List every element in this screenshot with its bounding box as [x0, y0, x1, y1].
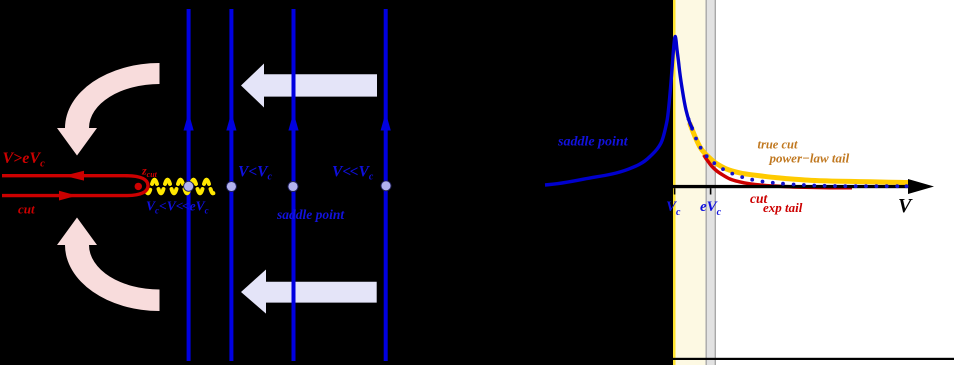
field line 3 arrowhead	[288, 113, 298, 131]
gold vertical line at V_c	[673, 0, 676, 365]
svg-text:cut: cut	[18, 202, 35, 217]
svg-text:true cut: true cut	[758, 138, 798, 152]
saddle point dot on line 4	[381, 181, 391, 191]
hairpin top arrow (leftward)	[64, 171, 84, 181]
right panel bottom border	[673, 358, 954, 360]
pink curved arrow top	[57, 63, 160, 156]
gray band right edge	[715, 0, 716, 365]
blue saddle-point distribution curve	[545, 37, 693, 186]
gray band at eV_c	[706, 0, 717, 365]
field line 2 arrowhead	[226, 113, 236, 131]
tick at eV_c	[710, 188, 712, 194]
svg-text:V>eVc: V>eVc	[3, 150, 46, 170]
field line 4 arrowhead	[381, 113, 391, 131]
cream band	[676, 0, 706, 365]
field line 4	[384, 9, 388, 361]
field line 1 arrowhead	[184, 113, 194, 131]
big lavender arrow top	[241, 64, 377, 108]
field line 3	[292, 9, 296, 361]
saddle point dot on line 2	[226, 182, 236, 192]
pink curved arrow bottom	[57, 218, 160, 312]
svg-text:exp tail: exp tail	[763, 200, 803, 215]
svg-text:saddle point: saddle point	[276, 207, 345, 222]
gray band left edge	[706, 0, 707, 365]
blue dotted curve	[687, 117, 909, 188]
big lavender arrow bottom	[241, 270, 377, 314]
svg-text:saddle point: saddle point	[557, 135, 629, 150]
x axis	[660, 185, 910, 188]
svg-text:V: V	[898, 195, 913, 217]
red hairpin cut contour	[2, 176, 148, 196]
field line 2	[229, 9, 233, 361]
yellow zigzag (oscillating trajectory near cut)	[147, 180, 214, 194]
svg-text:power−law tail: power−law tail	[769, 151, 850, 166]
red dot at z_cut	[135, 183, 142, 190]
tick at V_c	[674, 188, 676, 194]
svg-text:V<<Vc: V<<Vc	[332, 164, 374, 183]
field line 1	[187, 9, 191, 361]
right panel white background	[673, 0, 954, 365]
x axis arrowhead	[908, 179, 934, 194]
saddle point dot on line 1	[184, 181, 194, 191]
red exp tail curve	[704, 155, 852, 188]
saddle point dot on line 3	[288, 182, 298, 192]
hairpin bottom arrow (rightward)	[59, 191, 77, 201]
yellow power-law tail curve	[690, 124, 910, 183]
svg-text:V<Vc: V<Vc	[238, 164, 273, 183]
